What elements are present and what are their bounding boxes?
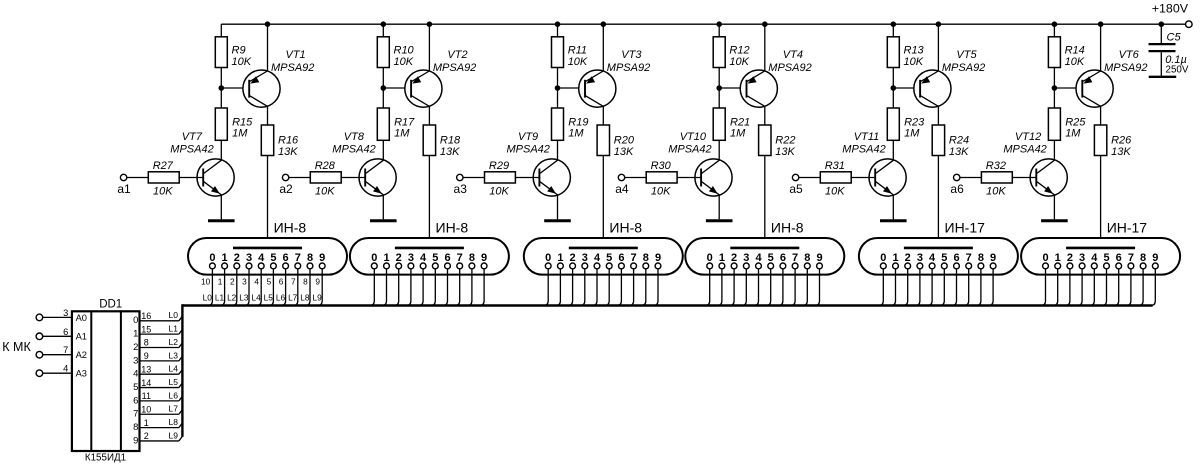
cathode pins tube #6 xyxy=(1043,263,1159,269)
label К МК xyxy=(2,340,31,354)
svg-text:VT9: VT9 xyxy=(518,131,538,143)
svg-text:К МК: К МК xyxy=(2,340,31,354)
wire a1 to R27 xyxy=(127,177,149,179)
resistor R29 xyxy=(485,172,516,183)
svg-text:L6: L6 xyxy=(169,390,179,400)
wire R25 to VT12 collector xyxy=(1053,140,1055,160)
label R12 10K xyxy=(729,44,749,67)
label R19 1M xyxy=(568,117,588,140)
svg-text:1M: 1M xyxy=(232,128,248,140)
svg-text:MPSA42: MPSA42 xyxy=(842,143,885,155)
resistor R16 xyxy=(261,125,273,156)
label VT5 MPSA92 xyxy=(942,49,985,74)
svg-text:MPSA42: MPSA42 xyxy=(507,143,550,155)
svg-text:R13: R13 xyxy=(904,44,925,56)
junction rail/R12 xyxy=(716,21,722,27)
cathode digits tube #6 xyxy=(1042,252,1158,264)
cathode digits tube #3 xyxy=(545,252,661,264)
wire R28 to VT8 base xyxy=(341,177,365,179)
cathode digits tube #1 xyxy=(209,252,325,264)
svg-text:L2: L2 xyxy=(227,292,237,302)
terminal a2 xyxy=(282,174,288,180)
transistor VT1 MPSA92 (PNP) xyxy=(243,70,280,107)
pin number 11 (L6) xyxy=(142,391,151,401)
label a3 xyxy=(454,182,468,196)
svg-text:6: 6 xyxy=(279,277,284,287)
svg-text:L9: L9 xyxy=(169,430,179,440)
wire VT11 emitter to ground xyxy=(892,195,894,219)
wire VT4 collector to R22 xyxy=(764,106,766,125)
wire DD1 output L0 xyxy=(140,316,183,321)
svg-text:10K: 10K xyxy=(232,56,252,68)
svg-text:1M: 1M xyxy=(904,128,920,140)
transistor VT9 MPSA42 (NPN) xyxy=(533,159,570,196)
wire VT10 emitter to ground xyxy=(718,195,720,219)
svg-text:4: 4 xyxy=(63,364,68,374)
junction rail/R10 xyxy=(381,21,387,27)
wire DD1 output L3 xyxy=(140,356,183,361)
transistor VT12 MPSA42 (NPN) xyxy=(1030,159,1067,196)
svg-text:0: 0 xyxy=(880,252,886,264)
label VT7 MPSA42 xyxy=(170,131,213,155)
svg-text:3: 3 xyxy=(63,308,68,318)
label tube ИН-8 #4 xyxy=(771,219,804,235)
svg-text:R20: R20 xyxy=(614,135,635,147)
svg-text:1: 1 xyxy=(892,252,898,264)
pin label output 6 (DD1) xyxy=(133,395,138,406)
transistor VT10 MPSA42 (NPN) xyxy=(695,159,732,196)
wire R32 to VT12 base xyxy=(1012,177,1036,179)
label a5 xyxy=(789,182,803,196)
svg-text:3: 3 xyxy=(408,252,414,264)
label R31 10K xyxy=(825,185,845,197)
svg-text:6: 6 xyxy=(133,395,138,406)
svg-text:10: 10 xyxy=(201,277,211,287)
wire base VT4 xyxy=(719,87,746,89)
svg-text:3: 3 xyxy=(242,277,247,287)
svg-text:9: 9 xyxy=(816,252,822,264)
label VT8 MPSA42 xyxy=(332,131,375,155)
wire DD1 output L6 xyxy=(140,396,183,401)
svg-text:L9: L9 xyxy=(312,292,322,302)
svg-text:8: 8 xyxy=(307,252,313,264)
wire VT2 collector to R18 xyxy=(428,106,430,125)
pin number 2 (L9) xyxy=(144,431,149,441)
wire R19 to VT9 collector xyxy=(557,140,559,160)
svg-text:8: 8 xyxy=(804,252,810,264)
svg-text:2: 2 xyxy=(230,277,235,287)
svg-text:4: 4 xyxy=(1091,252,1098,264)
terminal a1 xyxy=(120,174,126,180)
label a2 xyxy=(279,182,293,196)
net label L3 xyxy=(169,350,179,360)
wire anode R16 to tube xyxy=(267,156,269,248)
svg-text:L8: L8 xyxy=(169,417,179,427)
label R24 13K xyxy=(949,135,969,159)
svg-text:10K: 10K xyxy=(825,185,845,197)
label VT9 MPSA42 xyxy=(507,131,550,155)
svg-text:11: 11 xyxy=(142,391,151,401)
wire VT5 collector to R24 xyxy=(937,106,939,125)
wire R30 to VT10 base xyxy=(677,177,701,179)
junction rail/R14 xyxy=(1052,21,1058,27)
wire VT1 collector to R16 xyxy=(267,106,269,125)
wire VT1 emitter to rail xyxy=(267,24,269,71)
net labels L0-L9 tube #1 xyxy=(203,292,322,302)
svg-text:VT10: VT10 xyxy=(680,131,707,143)
anode bar tube #6 xyxy=(1066,247,1135,250)
svg-text:R9: R9 xyxy=(232,44,246,56)
pin number 10 (L7) xyxy=(141,404,151,414)
svg-text:8: 8 xyxy=(133,422,138,433)
svg-text:2: 2 xyxy=(905,252,911,264)
pin label output 5 (DD1) xyxy=(133,382,138,393)
svg-text:ИН-8: ИН-8 xyxy=(274,219,307,235)
svg-text:4: 4 xyxy=(254,277,259,287)
net label L2 xyxy=(169,337,179,347)
svg-text:7: 7 xyxy=(792,252,798,264)
svg-text:2: 2 xyxy=(396,252,402,264)
junction node base VT5 xyxy=(891,85,897,91)
resistor R24 xyxy=(932,125,944,156)
cathode bus riser xyxy=(181,304,183,437)
wire rail to R13 xyxy=(892,24,894,37)
label a4 xyxy=(615,182,629,196)
svg-text:2: 2 xyxy=(1067,252,1073,264)
pin label output 7 (DD1) xyxy=(133,409,138,420)
label R29 10K xyxy=(489,185,509,197)
svg-text:8: 8 xyxy=(303,277,308,287)
resistor R23 xyxy=(887,108,899,140)
terminal a4 xyxy=(618,174,624,180)
pin numbers tube #1 xyxy=(201,277,320,287)
wire R27 to VT7 base xyxy=(179,177,203,179)
transistor VT4 MPSA92 (PNP) xyxy=(740,70,777,107)
wire R31 to VT11 base xyxy=(851,177,875,179)
pin label output 0 (DD1) xyxy=(133,315,138,326)
wire anode R22 to tube xyxy=(764,156,766,248)
svg-text:L5: L5 xyxy=(264,292,274,302)
wire R17 to VT8 collector xyxy=(382,140,384,160)
svg-text:4: 4 xyxy=(420,252,427,264)
svg-text:3: 3 xyxy=(743,252,749,264)
nixie tube ИН-17 #5 envelope xyxy=(859,238,1018,275)
svg-text:L8: L8 xyxy=(300,292,310,302)
wire input A1 xyxy=(43,335,72,337)
net label L1 xyxy=(169,324,179,334)
label R14 10K xyxy=(1065,44,1085,67)
svg-text:0: 0 xyxy=(209,252,215,264)
label VT2 MPSA92 xyxy=(433,49,476,74)
net label L4 xyxy=(169,364,179,374)
svg-text:6: 6 xyxy=(63,327,68,337)
label VT6 MPSA92 xyxy=(1104,49,1147,74)
svg-text:L3: L3 xyxy=(239,292,249,302)
wire R21 to VT10 collector xyxy=(718,140,720,160)
resistor R18 xyxy=(423,125,435,156)
svg-text:a1: a1 xyxy=(117,182,131,196)
svg-text:A0: A0 xyxy=(76,313,87,323)
resistor R21 xyxy=(713,108,725,140)
cathode wires tube #4 to bus xyxy=(705,269,820,306)
label R30 xyxy=(651,160,672,172)
svg-text:7: 7 xyxy=(63,345,68,355)
nixie tube ИН-8 #2 envelope xyxy=(350,238,509,275)
svg-text:R18: R18 xyxy=(440,135,461,147)
svg-text:5: 5 xyxy=(267,277,272,287)
wire R23 to VT11 collector xyxy=(892,140,894,160)
wire VT9 emitter to ground xyxy=(557,195,559,219)
label К155ИД1 xyxy=(85,452,126,463)
wire anode R20 to tube xyxy=(602,156,604,248)
wire VT8 emitter to ground xyxy=(382,195,384,219)
junction rail/R11 xyxy=(555,21,561,27)
pin label output 8 (DD1) xyxy=(133,422,138,433)
label tube ИН-8 #3 xyxy=(609,219,642,235)
svg-text:10K: 10K xyxy=(394,56,414,68)
junction rail/VT1 emitter xyxy=(265,21,271,27)
label R23 1M xyxy=(904,117,925,140)
svg-text:1: 1 xyxy=(144,418,149,428)
svg-text:R32: R32 xyxy=(986,160,1006,172)
pin number 9 (L3) xyxy=(144,351,149,361)
svg-text:a2: a2 xyxy=(279,182,293,196)
svg-text:10: 10 xyxy=(141,404,151,414)
svg-text:a5: a5 xyxy=(789,182,803,196)
svg-text:R27: R27 xyxy=(153,160,174,172)
svg-text:2: 2 xyxy=(133,342,138,353)
cathode digits tube #4 xyxy=(707,252,823,264)
svg-text:MPSA42: MPSA42 xyxy=(1003,143,1046,155)
pin label output 2 (DD1) xyxy=(133,342,138,353)
wire a6 to R32 xyxy=(960,177,982,179)
wire R10 to R17 xyxy=(382,68,384,109)
svg-text:1: 1 xyxy=(218,277,223,287)
svg-text:L4: L4 xyxy=(169,364,179,374)
svg-text:MPSA92: MPSA92 xyxy=(1104,62,1147,74)
cathode pins tube #1 xyxy=(210,263,326,269)
resistor R19 xyxy=(552,108,564,140)
junction rail/VT2 emitter xyxy=(427,21,433,27)
svg-text:ИН-17: ИН-17 xyxy=(945,219,986,235)
label tube ИН-8 #1 xyxy=(274,219,307,235)
svg-text:4: 4 xyxy=(133,369,138,380)
svg-text:2: 2 xyxy=(144,431,149,441)
svg-text:MPSA42: MPSA42 xyxy=(332,143,375,155)
wire input A3 xyxy=(43,372,72,374)
svg-text:MPSA42: MPSA42 xyxy=(668,143,711,155)
ground under VT11 xyxy=(880,219,907,222)
svg-text:R11: R11 xyxy=(568,44,587,56)
svg-text:6: 6 xyxy=(1116,252,1122,264)
resistor R28 xyxy=(310,172,341,183)
svg-text:a4: a4 xyxy=(615,182,629,196)
transistor VT3 MPSA92 (PNP) xyxy=(579,70,616,107)
wire rail to R12 xyxy=(718,24,720,37)
svg-text:R22: R22 xyxy=(775,135,795,147)
resistor R30 xyxy=(646,172,677,183)
ground under C5 xyxy=(1149,76,1177,78)
cathode wires tube #5 to bus xyxy=(879,269,994,306)
svg-text:6: 6 xyxy=(444,252,450,264)
label C5 value 250V xyxy=(1166,65,1189,76)
wire anode R24 to tube xyxy=(937,156,939,248)
svg-text:A3: A3 xyxy=(76,369,87,379)
cathode digits tube #5 xyxy=(880,252,996,264)
svg-text:MPSA92: MPSA92 xyxy=(271,62,314,74)
svg-text:8: 8 xyxy=(1140,252,1146,264)
wire VT3 collector to R20 xyxy=(602,106,604,125)
svg-text:5: 5 xyxy=(768,252,774,264)
label R31 xyxy=(825,160,845,172)
label R17 1M xyxy=(394,117,415,140)
svg-text:VT8: VT8 xyxy=(344,131,365,143)
svg-text:VT6: VT6 xyxy=(1119,49,1140,61)
terminal input A3 xyxy=(36,370,43,377)
wire R15 to VT7 collector xyxy=(220,140,222,160)
svg-text:9: 9 xyxy=(319,252,325,264)
cathode wires tube #3 to bus xyxy=(543,269,658,306)
wire anode R26 to tube xyxy=(1100,156,1102,248)
wire a3 to R29 xyxy=(463,177,485,179)
svg-text:9: 9 xyxy=(481,252,487,264)
transistor VT2 MPSA92 (PNP) xyxy=(405,70,442,107)
pin number 13 (L4) xyxy=(141,364,151,374)
+180V power rail wire xyxy=(221,23,1185,25)
label R29 xyxy=(489,160,509,172)
label R18 13K xyxy=(440,135,461,159)
svg-text:250V: 250V xyxy=(1166,65,1189,76)
svg-text:7: 7 xyxy=(457,252,463,264)
label R32 10K xyxy=(986,185,1006,197)
wire base VT1 xyxy=(221,87,249,89)
resistor R12 xyxy=(713,37,725,68)
svg-text:3: 3 xyxy=(1079,252,1085,264)
wire base VT6 xyxy=(1054,87,1082,89)
svg-text:a6: a6 xyxy=(950,182,964,196)
svg-text:VT7: VT7 xyxy=(182,131,203,143)
svg-text:R28: R28 xyxy=(315,160,336,172)
svg-text:6: 6 xyxy=(953,252,959,264)
net label L9 xyxy=(169,430,179,440)
label +180V xyxy=(1152,2,1189,16)
svg-text:R31: R31 xyxy=(825,160,845,172)
svg-text:14: 14 xyxy=(141,378,151,388)
svg-text:VT2: VT2 xyxy=(447,49,467,61)
wire VT2 emitter to rail xyxy=(428,24,430,71)
svg-text:5: 5 xyxy=(941,252,947,264)
wire rail to R10 xyxy=(382,24,384,37)
svg-text:9: 9 xyxy=(1152,252,1158,264)
svg-text:9: 9 xyxy=(990,252,996,264)
transistor VT11 MPSA42 (NPN) xyxy=(869,159,906,196)
wire rail to C5 xyxy=(1160,24,1162,43)
ground under VT9 xyxy=(544,219,571,222)
label R15 1M xyxy=(232,117,253,140)
svg-text:L3: L3 xyxy=(169,350,179,360)
svg-text:ИН-8: ИН-8 xyxy=(771,219,804,235)
svg-text:A2: A2 xyxy=(76,350,87,360)
label VT3 MPSA92 xyxy=(607,49,650,74)
svg-text:5: 5 xyxy=(270,252,276,264)
label R27 xyxy=(153,160,174,172)
label R21 1M xyxy=(730,117,750,140)
wire R11 to R19 xyxy=(557,68,559,109)
label a6 xyxy=(950,182,964,196)
cathode bus horizontal xyxy=(182,304,1152,306)
wire DD1 output L8 xyxy=(140,423,183,428)
nixie tube ИН-8 #4 envelope xyxy=(685,238,844,275)
net label L8 xyxy=(169,417,179,427)
svg-text:VT1: VT1 xyxy=(286,49,306,61)
svg-text:9: 9 xyxy=(655,252,661,264)
svg-text:0: 0 xyxy=(371,252,377,264)
net label L7 xyxy=(169,404,179,414)
wire C5 to ground xyxy=(1160,52,1162,76)
svg-text:3: 3 xyxy=(917,252,923,264)
label R27 10K xyxy=(153,185,173,197)
pin label output 9 (DD1) xyxy=(133,435,138,446)
net label L0 xyxy=(169,310,179,320)
terminal a5 xyxy=(792,174,798,180)
label R28 xyxy=(315,160,336,172)
svg-text:R30: R30 xyxy=(651,160,672,172)
anode bar tube #1 xyxy=(233,247,302,250)
svg-text:7: 7 xyxy=(966,252,972,264)
svg-text:13K: 13K xyxy=(278,146,298,158)
svg-text:R16: R16 xyxy=(278,135,299,147)
svg-text:VT3: VT3 xyxy=(621,49,642,61)
wire VT6 emitter to rail xyxy=(1100,24,1102,71)
transistor VT5 MPSA92 (PNP) xyxy=(914,70,951,107)
label R13 10K xyxy=(904,44,925,67)
svg-text:ИН-17: ИН-17 xyxy=(1107,219,1148,235)
cathode wires tube #1 to bus xyxy=(208,269,323,306)
cathode wires tube #2 to bus xyxy=(370,269,485,306)
wire R9 to R15 xyxy=(220,68,222,109)
net label L5 xyxy=(169,377,179,387)
cathode digits tube #2 xyxy=(371,252,487,264)
terminal input A0 xyxy=(36,314,43,321)
pin label output 1 (DD1) xyxy=(133,329,138,340)
svg-text:4: 4 xyxy=(929,252,936,264)
svg-text:10K: 10K xyxy=(489,185,509,197)
label VT11 MPSA42 xyxy=(842,131,885,155)
svg-text:10K: 10K xyxy=(568,56,588,68)
junction rail/R13 xyxy=(891,21,897,27)
wire DD1 output L5 xyxy=(140,383,183,388)
anode bar tube #5 xyxy=(904,247,973,250)
svg-text:15: 15 xyxy=(141,324,151,334)
label tube ИН-17 #5 xyxy=(945,219,986,235)
svg-text:VT12: VT12 xyxy=(1015,131,1041,143)
svg-text:3: 3 xyxy=(246,252,252,264)
svg-text:1M: 1M xyxy=(394,128,410,140)
svg-text:1: 1 xyxy=(383,252,389,264)
pin number 15 (L1) xyxy=(141,324,151,334)
svg-text:1: 1 xyxy=(719,252,725,264)
svg-text:10K: 10K xyxy=(904,56,924,68)
junction node base VT4 xyxy=(716,85,722,91)
pin label output 3 (DD1) xyxy=(133,355,138,366)
svg-text:4: 4 xyxy=(258,252,265,264)
wire a5 to R31 xyxy=(799,177,821,179)
cathode pins tube #4 xyxy=(707,263,823,269)
svg-text:VT4: VT4 xyxy=(783,49,803,61)
svg-text:MPSA42: MPSA42 xyxy=(170,143,213,155)
svg-text:10K: 10K xyxy=(651,185,671,197)
svg-text:7: 7 xyxy=(295,252,301,264)
